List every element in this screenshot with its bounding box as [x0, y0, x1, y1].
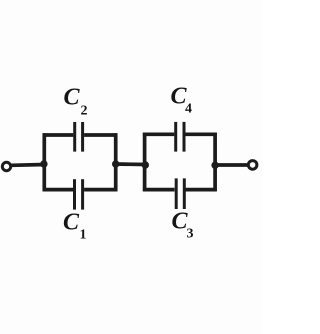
svg-text:1: 1 [80, 228, 87, 243]
svg-text:4: 4 [185, 102, 192, 117]
svg-text:C: C [63, 209, 80, 235]
svg-text:3: 3 [187, 227, 194, 242]
svg-text:C: C [64, 84, 81, 110]
svg-text:2: 2 [81, 104, 88, 119]
